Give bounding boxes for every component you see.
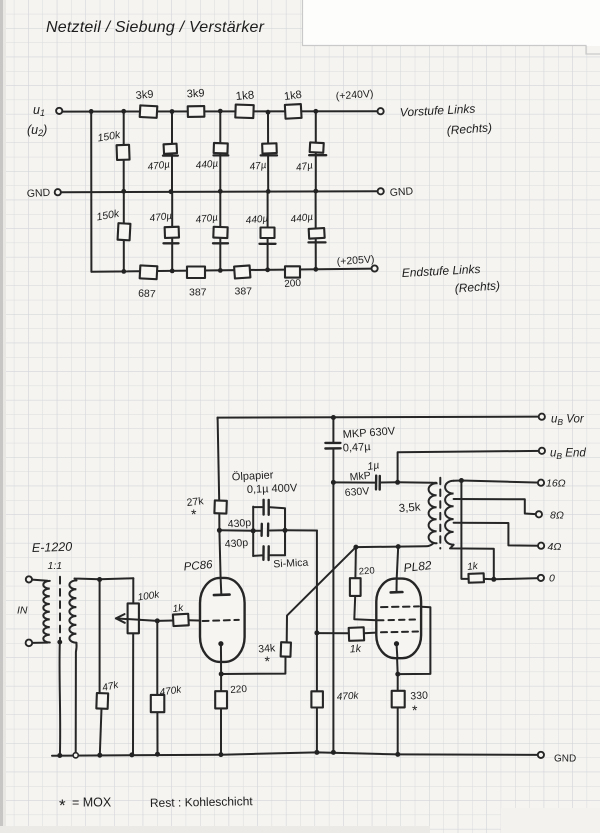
svg-text:MkP: MkP: [349, 470, 371, 484]
svg-text:1k8: 1k8: [283, 89, 302, 103]
svg-text:330: 330: [410, 690, 428, 703]
svg-text:*: *: [265, 653, 271, 669]
svg-text:3k9: 3k9: [186, 87, 205, 100]
svg-text:387: 387: [189, 287, 207, 299]
svg-text:= MOX: = MOX: [72, 796, 112, 810]
svg-text:200: 200: [284, 278, 302, 290]
svg-text:1k: 1k: [349, 643, 362, 656]
svg-text:IN: IN: [17, 605, 28, 617]
svg-text:3k9: 3k9: [135, 88, 154, 102]
svg-text:GND: GND: [554, 754, 576, 765]
svg-text:Ölpapier: Ölpapier: [232, 469, 274, 483]
svg-text:220: 220: [230, 684, 248, 696]
svg-text:PC86: PC86: [183, 559, 213, 574]
svg-text:(u2): (u2): [27, 123, 47, 138]
svg-text:0,47µ: 0,47µ: [343, 441, 372, 454]
svg-text:1k8: 1k8: [235, 89, 255, 103]
svg-text:16Ω: 16Ω: [546, 478, 566, 490]
svg-text:440µ: 440µ: [195, 159, 219, 172]
svg-text:Netzteil / Siebung / Verstärke: Netzteil / Siebung / Verstärker: [46, 19, 265, 36]
svg-text:3,5k: 3,5k: [398, 501, 421, 515]
svg-text:430p: 430p: [227, 517, 251, 531]
svg-text:*: *: [412, 702, 418, 718]
svg-text:0: 0: [549, 573, 555, 585]
svg-text:*: *: [59, 796, 66, 815]
svg-text:630V: 630V: [344, 485, 369, 499]
svg-text:430p: 430p: [224, 537, 248, 551]
svg-text:4Ω: 4Ω: [548, 541, 562, 553]
svg-text:GND: GND: [389, 185, 414, 199]
svg-text:470k: 470k: [336, 690, 359, 703]
svg-text:E-1220: E-1220: [32, 540, 73, 555]
svg-text:Si-Mica: Si-Mica: [273, 557, 309, 571]
svg-text:0,1µ 400V: 0,1µ 400V: [247, 482, 298, 496]
svg-text:8Ω: 8Ω: [550, 510, 564, 522]
svg-text:687: 687: [138, 288, 156, 301]
svg-text:Rest : Kohleschicht: Rest : Kohleschicht: [150, 794, 254, 810]
svg-text:1:1: 1:1: [48, 560, 63, 572]
svg-text:PL82: PL82: [403, 558, 433, 575]
svg-text:uB End: uB End: [550, 448, 586, 462]
svg-text:GND: GND: [27, 187, 51, 200]
svg-text:440µ: 440µ: [245, 214, 269, 227]
svg-text:uB Vor: uB Vor: [551, 414, 585, 428]
svg-text:387: 387: [235, 286, 253, 298]
svg-text:220: 220: [358, 565, 375, 577]
svg-text:*: *: [191, 506, 197, 522]
svg-text:47µ: 47µ: [249, 160, 267, 173]
